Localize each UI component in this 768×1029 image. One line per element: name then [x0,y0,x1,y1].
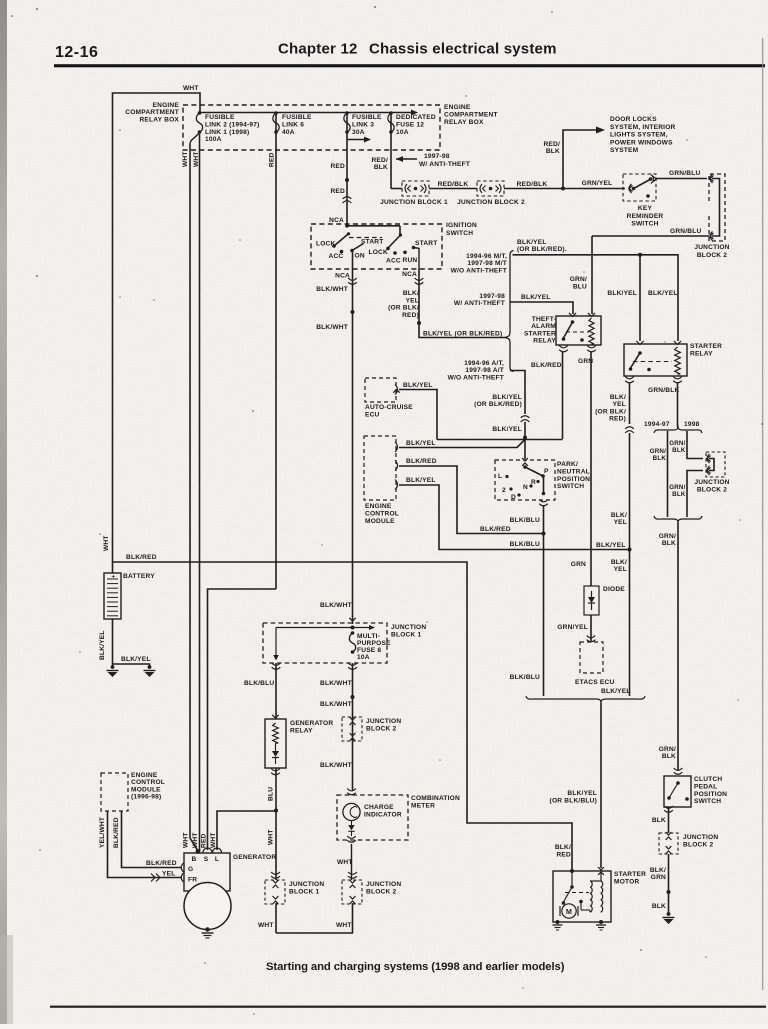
svg-text:FUSE 8: FUSE 8 [357,647,381,654]
svg-text:30A: 30A [352,129,365,136]
svg-text:COMBINATION: COMBINATION [411,795,460,802]
svg-text:RED: RED [330,188,345,195]
svg-text:10A: 10A [357,654,370,661]
wire BLK/YEL M/T direct to starter relay [513,255,679,341]
relay box internal bus [200,112,412,114]
svg-text:STARTER: STARTER [690,343,722,350]
junction block 2 connector (meter) [342,880,362,904]
svg-text:2: 2 [502,487,506,494]
svg-text:BLK/YEL: BLK/YEL [596,542,626,549]
connector (right output) [415,278,424,280]
ground clutch circuit [667,912,671,916]
wire GRN theft relay to diode [590,352,592,586]
svg-text:BLU: BLU [573,283,587,290]
wire BLK/YEL (OR BLK/BLU) to starter motor [600,703,602,868]
svg-text:WHT: WHT [210,832,217,848]
svg-text:+: + [112,575,116,581]
svg-text:Starting and charging systems: Starting and charging systems (1998 and … [266,961,565,973]
svg-text:YEL/WHT: YEL/WHT [99,817,106,848]
svg-text:START: START [361,239,384,246]
svg-text:JUNCTION: JUNCTION [694,244,729,251]
svg-text:MULTI-: MULTI- [357,633,380,640]
wire WHT #1 to generator B [190,144,198,851]
diode D1 [584,586,599,615]
svg-text:ACC: ACC [329,253,344,260]
left page-edge scan band [0,0,7,1024]
svg-text:1994-97: 1994-97 [644,421,670,428]
svg-text:N: N [523,484,528,491]
svg-text:COMPARTMENT: COMPARTMENT [444,112,498,119]
engine control module (dashed box) [364,436,396,500]
generator G/FR connectors [181,863,183,872]
park/neutral position switch (dashed box) [495,460,555,500]
generator terminal bumps [196,849,201,854]
dedicated fuse 12 10A [389,111,393,115]
connector on FR wire [151,874,155,882]
svg-text:BLK/: BLK/ [555,844,571,851]
svg-text:(OR BLK/: (OR BLK/ [595,408,626,415]
svg-text:(1996-98): (1996-98) [131,794,161,801]
node splice BLK/WHT [351,310,355,314]
wire BLK/YEL ECM to junction [399,440,525,448]
wire WHT meter to bottom [276,903,353,933]
svg-text:BLK/YEL (OR BLK/RED): BLK/YEL (OR BLK/RED) [423,331,502,338]
svg-text:FUSIBLE: FUSIBLE [282,114,312,121]
wire BLK/BLU JB1 to generator relay [275,663,277,719]
svg-text:RED): RED) [609,416,626,423]
wire BLK/YEL to merge brace [629,550,631,697]
svg-text:40A: 40A [282,129,295,136]
svg-text:BLK/YEL: BLK/YEL [517,239,547,246]
merge brace to starter motor [526,696,645,704]
svg-text:CONTROL: CONTROL [131,779,165,786]
svg-text:BLK: BLK [672,447,686,454]
svg-text:M: M [566,909,572,916]
svg-text:R: R [531,479,536,486]
svg-text:DIODE: DIODE [603,586,625,593]
svg-text:GRN: GRN [571,561,586,568]
svg-text:BLK/YEL: BLK/YEL [492,394,522,401]
svg-text:BLK: BLK [652,817,666,824]
generator armature circle [184,883,231,930]
starter motor grounds [556,920,560,924]
ignition switch left gang [345,224,349,228]
svg-text:BLK: BLK [653,455,667,462]
wire BLK/RED battery to starter [113,562,573,871]
svg-text:W/ ANTI-THEFT: W/ ANTI-THEFT [454,300,505,307]
svg-text:MOTOR: MOTOR [614,878,639,885]
wire BLK/YEL auto-cruise [399,390,437,440]
svg-text:BLK/WHT: BLK/WHT [320,602,352,609]
svg-text:NEUTRAL: NEUTRAL [557,468,590,475]
node starter relay coil tap [638,253,642,257]
svg-text:WHT: WHT [103,535,110,551]
svg-text:LINK 1 (1998): LINK 1 (1998) [205,129,249,136]
starter motor M1 box [553,871,611,922]
svg-text:GRN/BLU: GRN/BLU [670,228,701,235]
junction block 2 connector (dashed) [477,181,504,196]
svg-text:BLK: BLK [652,903,666,910]
svg-text:RED: RED [269,152,276,167]
wire BLU generator relay out [275,768,277,811]
svg-text:BLK/YEL: BLK/YEL [521,294,551,301]
svg-text:THEFT-: THEFT- [532,316,556,323]
junction block 1 (dashed box) [263,623,387,663]
svg-text:BLK/: BLK/ [611,559,627,566]
svg-text:BLU: BLU [268,787,275,801]
svg-text:L: L [498,473,502,480]
svg-text:BLK/WHT: BLK/WHT [320,701,352,708]
wire RED/BLK to key reminder [504,188,625,190]
svg-text:SYSTEM, INTERIOR: SYSTEM, INTERIOR [610,124,676,131]
svg-text:FUSE 12: FUSE 12 [396,121,424,128]
svg-text:JUNCTION: JUNCTION [366,881,401,888]
JB1 connector in [349,618,355,621]
svg-text:BLOCK 1: BLOCK 1 [289,888,319,895]
svg-text:BLK/YEL: BLK/YEL [648,290,678,297]
svg-text:BLK/RED: BLK/RED [531,362,562,369]
svg-text:BLK/WHT: BLK/WHT [316,286,348,293]
junction block 2 connector (clutch) [659,833,678,854]
svg-text:RED): RED) [402,312,419,319]
fusible link 3 30A [345,111,349,115]
svg-text:GENERATOR: GENERATOR [290,720,333,727]
svg-text:NCA: NCA [335,273,350,280]
svg-text:ENGINE: ENGINE [444,104,471,111]
svg-text:GRN/: GRN/ [669,440,685,447]
svg-text:DEDICATED: DEDICATED [396,114,436,121]
svg-text:W/ ANTI-THEFT: W/ ANTI-THEFT [419,161,470,168]
svg-text:JUNCTION BLOCK 2: JUNCTION BLOCK 2 [457,199,525,206]
svg-text:1994-96 A/T,: 1994-96 A/T, [464,360,504,367]
svg-text:1994-96 M/T,: 1994-96 M/T, [466,253,507,260]
svg-text:RED/BLK: RED/BLK [438,181,469,188]
svg-text:RUN: RUN [403,257,418,264]
svg-text:BLK/WHT: BLK/WHT [320,680,352,687]
svg-text:BLK: BLK [662,540,676,547]
svg-text:GRN/BLK: GRN/BLK [648,387,679,394]
wire GRN/BLK 1994-97 path [667,431,669,517]
svg-text:GRN: GRN [651,874,666,881]
wire GRN/BLK coil output [677,383,679,427]
node BLK splice [667,890,671,894]
wire BLK/YEL to starter relay switch [639,255,641,341]
svg-text:YEL: YEL [614,519,627,526]
ignition switch (dashed box) [311,224,442,269]
battery BT1 [112,562,114,573]
svg-text:JUNCTION: JUNCTION [289,881,324,888]
svg-text:MODULE: MODULE [131,786,161,793]
wire BLK clutch to JB2 [668,807,670,833]
svg-text:LINK 2 (1994-97): LINK 2 (1994-97) [205,121,260,128]
svg-text:Chassis electrical system: Chassis electrical system [369,41,557,58]
wire RED/BLK between junction blocks [429,188,477,190]
svg-text:GRN/: GRN/ [659,746,676,753]
svg-text:JUNCTION: JUNCTION [694,479,729,486]
svg-text:PEDAL: PEDAL [694,783,717,790]
svg-text:SWITCH: SWITCH [694,798,721,805]
svg-text:RELAY: RELAY [290,727,313,734]
ground second [148,665,152,669]
multi-purpose fuse 8 10A [351,631,355,635]
wire BLK/YEL to theft-alarm relay [510,302,573,314]
svg-text:L: L [215,856,219,863]
svg-text:WHT: WHT [192,832,199,848]
svg-text:B: B [192,856,197,863]
svg-text:RED: RED [556,851,571,858]
starter relay K1 [624,344,687,376]
wire BLK/WHT ignition to JB1 fuse [352,269,354,624]
svg-text:BLK/RED: BLK/RED [406,458,437,465]
ignition wire ON output stub [352,251,354,269]
fusible link 6 40A [274,111,278,115]
svg-text:SWITCH: SWITCH [631,221,658,228]
svg-text:JUNCTION: JUNCTION [366,718,401,725]
wire WHT bottom U [275,903,277,933]
svg-text:BLK/YEL: BLK/YEL [99,630,106,660]
auto-cruise ECU (dashed box) [365,378,396,402]
junction block 2 connector (BLK/WHT) [342,717,362,741]
svg-text:1997-98: 1997-98 [424,153,450,160]
svg-text:COMPARTMENT: COMPARTMENT [125,109,179,116]
svg-text:RED: RED [330,163,345,170]
svg-text:BLOCK 2: BLOCK 2 [697,252,727,259]
svg-text:1997-98 M/T: 1997-98 M/T [467,260,507,267]
charge indicator lamp [347,789,356,791]
svg-text:NCA: NCA [402,271,417,278]
starter motor connector in [598,867,604,870]
svg-text:(OR BLK/RED).: (OR BLK/RED). [517,246,567,253]
svg-text:(OR BLK/BLU): (OR BLK/BLU) [550,797,597,804]
svg-text:1997-98: 1997-98 [479,293,505,300]
svg-text:METER: METER [411,802,435,809]
inline connector A/T wire [521,416,530,418]
wire WHT #2 to generator B [199,134,201,851]
svg-text:LIGHTS SYSTEM,: LIGHTS SYSTEM, [610,132,668,139]
clutch pedal position switch S2 [674,768,683,770]
svg-text:BLK/YEL: BLK/YEL [121,656,151,663]
svg-text:GRN/: GRN/ [570,276,587,283]
svg-text:BLK/YEL: BLK/YEL [607,290,637,297]
wire BLK/YEL ECM lower [399,485,630,550]
svg-text:(OR BLK/RED): (OR BLK/RED) [474,401,522,408]
svg-text:S: S [204,856,209,863]
svg-text:INDICATOR: INDICATOR [364,811,402,818]
svg-text:WHT: WHT [337,859,353,866]
inline connector on starter wire [625,427,634,429]
svg-text:BLOCK 1: BLOCK 1 [391,631,421,638]
svg-text:BLK/YEL: BLK/YEL [406,477,436,484]
svg-text:BLK/RED: BLK/RED [113,817,120,848]
wire GRN/BLU to junction block 2 (top right) [656,178,707,180]
svg-text:ENGINE: ENGINE [365,503,392,510]
starter motor contacts [571,871,573,886]
svg-text:BLOCK 2: BLOCK 2 [366,725,396,732]
svg-text:BLK/YEL: BLK/YEL [601,688,631,695]
split brace 1994-97/1998 [654,426,702,434]
svg-text:RELAY: RELAY [690,351,713,358]
wire BLK/WHT JB1 down [352,663,354,790]
JB1 exits [272,663,281,665]
svg-text:WHT: WHT [258,922,274,929]
svg-text:GRN/YEL: GRN/YEL [582,180,613,187]
svg-text:CONTROL: CONTROL [365,510,399,517]
svg-text:BLK/BLU: BLK/BLU [510,674,540,681]
svg-text:AUTO-CRUISE: AUTO-CRUISE [365,404,413,411]
svg-text:ACC: ACC [386,258,401,265]
wire BLK/RED ECM to G [122,811,182,868]
svg-text:LINK 3: LINK 3 [352,121,374,128]
svg-text:BLK/: BLK/ [650,867,666,874]
svg-text:LINK 6: LINK 6 [282,121,304,128]
right page-edge line [762,38,763,990]
junction block 1 connector (gen branch) [265,880,285,904]
svg-text:FUSIBLE: FUSIBLE [352,114,382,121]
svg-text:BLK/YEL: BLK/YEL [567,790,597,797]
svg-text:W/O ANTI-THEFT: W/O ANTI-THEFT [451,267,507,274]
svg-text:PURPOSE: PURPOSE [357,640,391,647]
engine compartment relay box (dashed) [183,105,440,150]
wire RED fusible link 6 down [275,112,277,589]
ignition switch right gang [347,225,400,227]
svg-text:SWITCH: SWITCH [446,230,473,237]
svg-text:RELAY: RELAY [533,338,556,345]
svg-text:12-16: 12-16 [55,44,98,61]
svg-text:JUNCTION: JUNCTION [391,624,426,631]
svg-text:BATTERY: BATTERY [123,573,155,580]
svg-text:KEY: KEY [638,205,653,212]
wire BLK/YEL down to junction [629,433,631,550]
svg-text:ECU: ECU [365,411,380,418]
svg-text:START: START [415,240,438,247]
svg-text:CHARGE: CHARGE [364,804,394,811]
svg-text:BLK/BLU: BLK/BLU [510,541,540,548]
svg-text:BLK/RED: BLK/RED [146,860,177,867]
bottom rule [50,1006,766,1008]
wire GRN/BLK 1998 return [687,471,703,518]
svg-text:ENGINE: ENGINE [131,772,158,779]
svg-text:GRN/BLU: GRN/BLU [669,170,700,177]
svg-text:NCA: NCA [329,217,344,224]
wire GRN/BLU return [592,235,709,237]
junction block 2 pass-through wire [710,174,713,183]
wire WHT battery-to-relay-box feed (left tall run) [113,93,201,562]
brace start-circuit variants [504,251,514,372]
node BLK/YEL junction at park/neutral [523,436,527,440]
svg-text:WHT: WHT [336,922,352,929]
svg-text:SYSTEM: SYSTEM [610,147,639,154]
connector (left output) [348,278,357,280]
wire BLK/RED ECM [399,466,544,534]
wire YEL/WHT ECM to FR [108,811,182,878]
junction block 2 (dashed, top right) [709,174,725,241]
svg-text:LOCK: LOCK [369,249,389,256]
svg-text:GENERATOR: GENERATOR [233,854,276,861]
note arrow 1997-98 W/ ANTI-THEFT [396,158,417,160]
wire GRN/BLK to clutch switch [677,523,679,771]
svg-text:ON: ON [355,253,365,260]
fusible link 2/1 100A [198,111,202,115]
svg-text:BLK/YEL: BLK/YEL [492,426,522,433]
ground battery [111,665,115,669]
wire BLK/YEL ignition START output [419,269,504,338]
wire RED ignition feed [346,112,348,224]
svg-text:GRN/: GRN/ [669,484,685,491]
svg-text:GRN/YEL: GRN/YEL [557,624,588,631]
svg-text:BLK/WHT: BLK/WHT [316,324,348,331]
svg-text:W/O ANTI-THEFT: W/O ANTI-THEFT [448,374,504,381]
wire BLK/YEL second ground branch [113,664,150,667]
svg-text:RED/BLK: RED/BLK [517,181,548,188]
svg-text:POWER WINDOWS: POWER WINDOWS [610,139,673,146]
svg-text:BLOCK 2: BLOCK 2 [683,841,713,848]
svg-text:BLK/YEL: BLK/YEL [406,440,436,447]
key reminder switch contacts [629,184,632,193]
junction block 2 connector (mid right) [706,452,725,477]
svg-text:GRN/: GRN/ [650,448,666,455]
node BLU/WHT junction [274,809,278,813]
wire BLK/YEL starter relay switch output [629,383,631,424]
svg-text:BLK/YEL: BLK/YEL [403,382,433,389]
svg-text:BLOCK 2: BLOCK 2 [697,486,727,493]
svg-text:P: P [544,468,549,475]
svg-text:FR: FR [188,877,197,884]
wire junction run to theft relay output [437,439,563,441]
svg-text:STARTER: STARTER [524,330,556,337]
wire WHT generator branch down [275,811,277,881]
node RED/BLK branch [561,187,565,191]
svg-text:G: G [188,866,193,873]
svg-text:1998: 1998 [684,421,700,428]
generator GEN1 box [184,853,230,891]
svg-text:WHT: WHT [183,832,190,848]
arrow branch to other circuits [347,139,365,141]
svg-text:1997-98 A/T: 1997-98 A/T [465,367,504,374]
svg-text:BLK/RED: BLK/RED [126,554,157,561]
junction block 1 connector (dashed) [402,181,429,196]
svg-text:BLK/WHT: BLK/WHT [320,762,352,769]
svg-text:IGNITION: IGNITION [446,222,477,229]
svg-text:LOCK: LOCK [316,241,336,248]
engine control module 1996-98 (dashed box) [101,773,128,811]
svg-text:JUNCTION BLOCK 1: JUNCTION BLOCK 1 [380,199,448,206]
wire GRN/BLU down to theft-alarm relay [591,236,593,314]
svg-text:YEL: YEL [613,401,626,408]
svg-text:BLK: BLK [546,148,560,155]
svg-text:CLUTCH: CLUTCH [694,776,722,783]
svg-text:DOOR LOCKS: DOOR LOCKS [610,116,657,123]
svg-text:PARK/: PARK/ [557,461,578,468]
connector into ignition switch [343,197,352,199]
svg-text:RED/: RED/ [543,141,560,148]
svg-text:BLK: BLK [662,753,676,760]
wire WHT L-terminal to BLU node [217,811,276,850]
svg-text:BLK/: BLK/ [611,512,627,519]
svg-text:BLOCK 2: BLOCK 2 [366,888,396,895]
svg-text:GRN: GRN [578,358,593,365]
svg-text:100A: 100A [205,136,222,143]
svg-text:D: D [511,494,516,501]
node START branch [417,321,421,325]
svg-text:10A: 10A [396,129,409,136]
node splice on RED feed [345,178,349,182]
svg-text:RED: RED [201,833,208,848]
generator ground [205,927,209,931]
svg-text:BLK/BLU: BLK/BLU [244,680,274,687]
wire GRN/YEL diode to ETACS [590,615,592,641]
starter motor M symbol [562,904,576,918]
svg-text:Chapter 12: Chapter 12 [278,41,358,58]
